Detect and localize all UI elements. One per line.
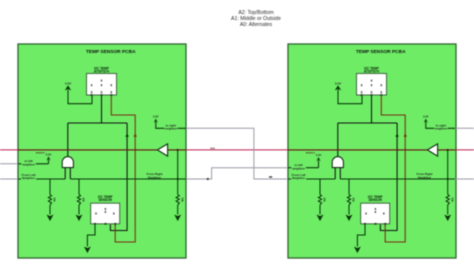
svg-text:10k: 10k [450, 198, 454, 203]
svg-text:SENSOR: SENSOR [98, 198, 112, 202]
ground below R23 [444, 215, 451, 222]
wire from-right-neighbor dangling right [455, 178, 474, 180]
wire SDA (maroon) U11 pin A0 to U12 [111, 96, 135, 242]
label to-right-neighbor [164, 124, 178, 131]
gate G1 input stub B [69, 168, 71, 179]
svg-text:SENSOR: SENSOR [368, 198, 382, 202]
svg-text:3.3V: 3.3V [316, 153, 322, 157]
junction dot from-right row [447, 178, 449, 180]
temp sensor board PCBA1 [18, 44, 186, 258]
wire R12 bottom [78, 205, 80, 215]
wire to-left-neighbor dangling left [0, 163, 18, 165]
svg-text:10k: 10k [180, 198, 184, 203]
wire 3.3V to U21 pin1 [338, 89, 362, 103]
wire R22 top [348, 179, 350, 195]
resistor R12 [77, 195, 80, 206]
svg-text:Neighbor: Neighbor [292, 176, 306, 180]
svg-text:SDA: SDA [210, 147, 215, 150]
chip U22 (I2C temp sensor) [361, 203, 390, 224]
wire SCL horizontal [338, 122, 397, 124]
svg-text:Neighbor: Neighbor [148, 175, 162, 179]
ground below U22 [354, 247, 361, 254]
wire R11 bottom [49, 205, 51, 215]
svg-text:3.3V: 3.3V [153, 115, 159, 119]
wire from right neighbor [70, 178, 186, 180]
junction dot bus tap [447, 149, 449, 151]
power 3.3V arrow P12 [154, 119, 158, 123]
wire I2C bus crimson left edge [0, 149, 18, 151]
svg-text:3.3V: 3.3V [335, 81, 342, 85]
svg-text:3.3V: 3.3V [423, 115, 429, 119]
svg-text:3.3V: 3.3V [65, 81, 72, 85]
svg-text:neighbor: neighbor [292, 166, 306, 170]
svg-text:Neighbor: Neighbor [22, 176, 36, 180]
junction dot wire B [207, 178, 209, 180]
resistor R21 [318, 195, 321, 206]
junction dot bus tap [177, 149, 179, 151]
wire R21 bottom [319, 205, 321, 215]
wire 3.3V pullup to-left [318, 160, 320, 168]
and-gate G2 [332, 157, 343, 168]
signal arrow on SDA wire [404, 133, 407, 137]
wire U22 pin1 to ground [357, 225, 365, 247]
gate G2 input stub A [334, 168, 336, 179]
temp sensor board PCBA2 [288, 44, 456, 258]
ground below R21 [317, 215, 324, 222]
junction dot from-right row [177, 178, 179, 180]
U12 pin stubs [94, 223, 96, 225]
U21 pin stubs [361, 94, 363, 96]
ground below R22 [346, 215, 353, 222]
power 3.3V arrow P21 [335, 85, 342, 90]
signal arrow on SCL wire [125, 133, 128, 137]
wire R12 top [78, 179, 80, 195]
label to-left-neighbor [21, 160, 35, 167]
power 3.3V arrow P11 [65, 85, 72, 90]
svg-text:AT30TS74: AT30TS74 [94, 70, 109, 74]
svg-text:A2: Top/Bottom: A2: Top/Bottom [238, 10, 273, 16]
wire U21 pin A1 down (SCL) [371, 96, 373, 123]
op chip U11 (I2C temp sensor) [87, 74, 117, 96]
buffer B2 [427, 144, 437, 156]
wire bus tap down to R13 [177, 150, 179, 195]
wire to left neighbor [288, 167, 319, 169]
wire SCL horizontal [68, 122, 127, 124]
wire to right neighbor [426, 122, 456, 129]
wire A: PCBA1 to-right-neighbor to PCBA2 from-left [186, 128, 288, 179]
wire from-left-neighbor dangling left [0, 178, 18, 180]
power 3.3V arrow P23 [316, 157, 320, 161]
wire 3.3V to U11 pin1 [68, 89, 92, 103]
label to-left-neighbor [291, 164, 306, 171]
wire U12 pin1 to ground [87, 225, 95, 247]
ground below U12 [84, 247, 91, 254]
buffer B1 [157, 144, 167, 156]
wire 3.3V pullup to-left [48, 160, 50, 164]
svg-text:TEMP SENSOR PCBA: TEMP SENSOR PCBA [86, 49, 136, 55]
svg-text:SDA/SCL: SDA/SCL [36, 152, 46, 155]
resistor R13 [176, 195, 179, 206]
U21 pin numbers [361, 91, 362, 93]
ground below R13 [174, 215, 181, 222]
svg-text:Neighbor: Neighbor [418, 175, 432, 179]
U11 pin stubs [91, 94, 93, 96]
net label on wire A [269, 176, 272, 177]
U12 pin numbers [95, 213, 96, 215]
gate G1 input stub A [64, 168, 66, 179]
wire I2C bus dark right segment [168, 149, 186, 151]
wire I2C bus crimson right edge [455, 149, 474, 151]
wire to right neighbor [156, 122, 186, 129]
label to-right-neighbor [434, 124, 448, 131]
power 3.3V arrow P22 [424, 119, 428, 123]
svg-text:A0: Alternates: A0: Alternates [240, 22, 273, 28]
U22 pin numbers [365, 213, 366, 215]
wire SCL down to U22 [380, 123, 397, 231]
wire R21 top [319, 179, 321, 195]
svg-text:10k: 10k [53, 198, 57, 203]
wire from right neighbor [340, 178, 456, 180]
wire R23 bottom [447, 205, 449, 215]
signal arrow on SDA wire [134, 133, 137, 137]
wire U11 pin A1 down (SCL) [101, 96, 103, 123]
wire gate G2 output up [337, 123, 339, 157]
wire to left neighbor [18, 163, 49, 165]
svg-text:TEMP SENSOR PCBA: TEMP SENSOR PCBA [356, 49, 406, 55]
resistor R22 [347, 195, 350, 206]
svg-text:neighbor: neighbor [164, 127, 178, 131]
wire I2C bus dark right segment [438, 149, 456, 151]
svg-text:10k: 10k [323, 198, 327, 203]
svg-text:10k: 10k [82, 198, 86, 203]
and-gate G1 [62, 157, 73, 168]
chip U12 (I2C temp sensor) [91, 203, 120, 224]
svg-text:A1: Middle or Outside: A1: Middle or Outside [231, 16, 281, 22]
signal arrow on SCL wire [395, 133, 398, 137]
wire B: PCBA2 to-left-neighbor to PCBA1 from-right [186, 168, 288, 179]
power 3.3V arrow P13 [46, 156, 50, 160]
svg-text:10k: 10k [352, 198, 356, 203]
wire gate G1 output up [67, 123, 69, 157]
svg-text:3.3V: 3.3V [46, 153, 52, 157]
label from-left-neighbor [291, 173, 306, 180]
wire from left neighbor [288, 178, 335, 180]
wire SDA (maroon) U21 pin A0 to U22 [381, 96, 405, 242]
resistor R23 [446, 195, 449, 206]
label from-left-neighbor [21, 173, 36, 180]
wire to-right-neighbor dangling right [455, 127, 474, 129]
ground below R12 [76, 215, 83, 222]
svg-text:neighbor: neighbor [434, 127, 448, 131]
gate G2 input stub B [339, 168, 341, 179]
U11 pin numbers [91, 91, 92, 93]
svg-text:SDA/SCL: SDA/SCL [306, 152, 316, 155]
svg-text:AT30TS74: AT30TS74 [364, 70, 379, 74]
ground below R11 [47, 215, 54, 222]
wire I2C bus dark left segment [18, 149, 157, 151]
U22 pin stubs [364, 223, 366, 225]
wire R11 top [49, 179, 51, 195]
svg-text:neighbor: neighbor [22, 163, 36, 167]
op chip U21 (I2C temp sensor) [357, 74, 387, 96]
wire R13 bottom [177, 205, 179, 215]
wire from left neighbor [18, 178, 65, 180]
wire R22 bottom [348, 205, 350, 215]
wire I2C bus crimson between boards [186, 149, 288, 151]
wire I2C bus dark left segment [288, 149, 427, 151]
wire SCL down to U12 [110, 123, 127, 231]
resistor R11 [48, 195, 51, 206]
wire bus tap down to R23 [447, 150, 449, 195]
